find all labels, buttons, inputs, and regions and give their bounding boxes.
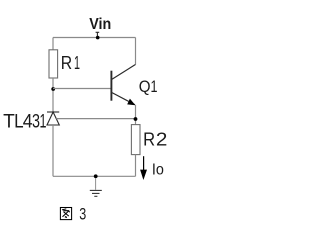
wire left upper — [52, 38, 54, 50]
wire REF — [56, 118, 135, 120]
label Q1 — [139, 77, 158, 96]
ground — [90, 178, 102, 196]
caption 图 — [60, 208, 71, 220]
node ground junction dot — [94, 174, 98, 178]
TL431 U1 — [47, 112, 59, 125]
svg-text:Io: Io — [152, 162, 164, 179]
svg-text:1: 1 — [40, 111, 47, 133]
wire base — [53, 88, 111, 90]
transistor Q1 — [111, 64, 135, 105]
resistor R2 — [131, 125, 140, 155]
label R2 — [143, 129, 167, 149]
resistor R1 — [49, 50, 58, 78]
svg-text:R: R — [61, 53, 72, 73]
wire bottom rail — [53, 175, 136, 177]
svg-text:1: 1 — [74, 53, 80, 73]
node base junction dot — [51, 87, 55, 91]
label TL431 — [3, 111, 46, 133]
wire left lower — [52, 125, 54, 176]
svg-text:Q: Q — [139, 77, 151, 96]
wire right lower — [135, 155, 137, 177]
wire left middle — [52, 78, 54, 112]
node emitter junction dot — [134, 117, 138, 121]
svg-text:2: 2 — [156, 129, 168, 149]
wire collector — [135, 38, 137, 65]
wire emitter drop — [135, 105, 137, 125]
current arrow Io — [140, 156, 147, 180]
node Vin terminal — [96, 32, 100, 37]
svg-text:3: 3 — [79, 206, 86, 224]
node Vin junction dot — [96, 36, 100, 40]
wire top rail — [53, 37, 136, 39]
label R1 — [61, 53, 80, 73]
svg-text:R: R — [143, 129, 155, 149]
svg-text:1: 1 — [151, 77, 158, 96]
svg-text:Vin: Vin — [89, 16, 111, 33]
